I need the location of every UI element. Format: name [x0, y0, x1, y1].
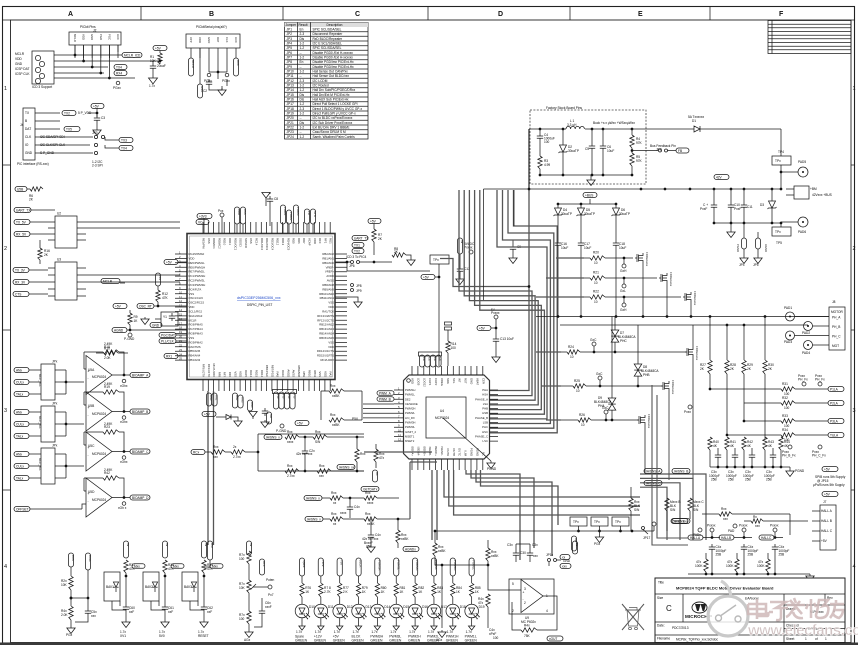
- hall connector J7: [820, 505, 836, 550]
- svg-text:2.0K: 2.0K: [104, 356, 111, 360]
- svg-text:RB6/PGC: RB6/PGC: [265, 365, 269, 377]
- svg-text:TPx: TPx: [433, 258, 439, 262]
- svg-text:1-2: 1-2: [300, 112, 305, 116]
- svg-text:JP8: JP8: [287, 60, 293, 64]
- svg-text:F: F: [779, 11, 784, 18]
- revision history table: [768, 21, 851, 54]
- svg-text:JP4: JP4: [287, 42, 293, 46]
- svg-text:R4x: R4x: [524, 624, 530, 628]
- svg-text:RE7/PWM2L: RE7/PWM2L: [189, 270, 206, 274]
- svg-text:U5B: U5B: [17, 187, 23, 191]
- test point Poten: [268, 585, 272, 589]
- svg-text:4: 4: [4, 564, 7, 570]
- svg-text:2.7xx: 2.7xx: [233, 455, 241, 459]
- U9 input wires: [488, 565, 521, 590]
- svg-text:PWM2H: PWM2H: [415, 560, 419, 570]
- grid capacitors: [715, 452, 721, 460]
- svg-text:Disable PGD/Imx PIC/Ext-Hx: Disable PGD/Imx PIC/Ext-Hx: [313, 60, 354, 64]
- svg-text:RC1/PWM2H: RC1/PWM2H: [189, 274, 206, 278]
- svg-text:42Vxxx +BUS: 42Vxxx +BUS: [812, 193, 832, 197]
- net label GETDAT: [361, 487, 379, 492]
- svg-text:OUTA: OUTA: [446, 448, 450, 456]
- svg-text:RD6: RD6: [297, 238, 301, 244]
- svg-text:VDD: VDD: [411, 378, 415, 384]
- svg-text:ILIM: ILIM: [464, 451, 468, 457]
- output net label BIOAMP_A: [130, 373, 150, 378]
- svg-text:PAD: PAD: [728, 529, 735, 533]
- svg-text:CE: CE: [439, 357, 443, 361]
- net label TX: [114, 65, 127, 70]
- diode pair in supervisor 1: [113, 582, 118, 587]
- svg-text:J4: J4: [20, 123, 24, 127]
- svg-text:PHASE_C: PHASE_C: [475, 435, 488, 439]
- svg-text:C3: C3: [101, 116, 105, 120]
- LED indicator D19 column PWM1L: [469, 558, 474, 576]
- svg-text:10uF: 10uF: [607, 149, 614, 153]
- svg-text:UART_TX: UART_TX: [354, 236, 369, 240]
- svg-text:Spare: Spare: [302, 560, 306, 568]
- driver left wires to MCU nets: [363, 404, 394, 423]
- svg-text:SOSCO: SOSCO: [244, 238, 248, 249]
- long wire down to driver VDD: [438, 277, 440, 366]
- svg-text:Y1: Y1: [163, 315, 167, 319]
- svg-text:R33: R33: [782, 414, 788, 418]
- U9 feedback resistor R46: [537, 596, 557, 630]
- svg-text:JP20: JP20: [287, 116, 294, 120]
- svg-text:INT: INT: [458, 378, 462, 383]
- svg-text:DAT: DAT: [216, 37, 220, 43]
- svg-text:RE5/PWM1L: RE5/PWM1L: [189, 261, 206, 265]
- svg-text:xxBK: xxBK: [332, 394, 340, 398]
- bottom border band: [0, 643, 858, 645]
- pullup resistor R30: [764, 317, 766, 361]
- net label CTS oval: [64, 127, 80, 132]
- svg-text:U4: U4: [440, 409, 444, 413]
- svg-text:U5A: U5A: [88, 368, 95, 372]
- svg-text:MSET2: MSET2: [405, 439, 415, 443]
- net tag PWM2H: [828, 401, 844, 406]
- svg-text:2.49K: 2.49K: [104, 468, 113, 472]
- svg-text:PWM3: PWM3: [296, 207, 300, 216]
- svg-text:VSS: VSS: [189, 336, 195, 340]
- PWM feedback resistor row2: [781, 401, 795, 405]
- ground R76b: [248, 630, 250, 632]
- svg-text:Buck +x.x µWxx +WSxxµWxx: Buck +x.x µWxx +WSxxµWxx: [593, 121, 635, 125]
- svg-text:PGND: PGND: [795, 469, 805, 473]
- svg-text:CE: CE: [422, 357, 426, 361]
- ground supervisor 1: [125, 620, 127, 622]
- top rail inside power box: [540, 128, 632, 130]
- row B ovals and resistors y519: [305, 517, 323, 522]
- svg-text:2-3: 2-3: [300, 107, 305, 111]
- output test point C: [122, 456, 126, 460]
- net tag vertical mid: [372, 470, 377, 482]
- svg-text:GREEN: GREEN: [295, 639, 308, 643]
- pad PH_C: [786, 331, 795, 340]
- svg-text:ISENB-: ISENB-: [428, 447, 432, 456]
- svg-text:PWM2: PWM2: [289, 212, 293, 221]
- svg-text:RD0/OC1: RD0/OC1: [233, 238, 237, 251]
- svg-text:47K: 47K: [162, 296, 169, 300]
- svg-text:xxx: xxx: [755, 524, 760, 528]
- svg-text:PHASE_A: PHASE_A: [475, 397, 488, 401]
- resistor R44 vertical: [486, 548, 490, 561]
- svg-text:2x: 2x: [233, 445, 237, 449]
- svg-text:RB1/AN1: RB1/AN1: [322, 256, 334, 260]
- svg-text:Disconnect Repeater: Disconnect Repeater: [313, 32, 344, 36]
- svg-text:LIN_RX: LIN_RX: [405, 416, 415, 420]
- svg-text:VREG: VREG: [440, 378, 444, 386]
- svg-text:I2C Routed: I2C Routed: [313, 84, 329, 88]
- svg-text:Size: Size: [657, 596, 663, 600]
- TP rail extension left: [435, 530, 560, 532]
- resistor R9: [129, 310, 131, 313]
- svg-text:AN4: AN4: [250, 402, 254, 408]
- svg-text:Dis: Dis: [300, 93, 305, 97]
- svg-text:LDO5: LDO5: [416, 378, 420, 386]
- connector J1 ICSP: [32, 51, 54, 84]
- hall pullup circle 1: [710, 528, 714, 532]
- net tag above supervisor 2: [162, 541, 167, 558]
- jumper JP17: [642, 527, 645, 530]
- svg-text:JP14: JP14: [287, 88, 294, 92]
- svg-text:TPx: TPx: [775, 159, 781, 163]
- net label RX chain: [191, 450, 205, 455]
- svg-text:xxBK: xxBK: [332, 423, 340, 427]
- svg-text:TX1: TX1: [354, 243, 360, 247]
- motor connector J8: [829, 307, 845, 350]
- svg-text:AGND: AGND: [764, 244, 768, 252]
- svg-text:OFF: OFF: [262, 561, 266, 567]
- svg-text:75K: 75K: [524, 634, 531, 638]
- row B lower cap and text: [368, 532, 374, 540]
- resistor R3: [538, 156, 542, 169]
- svg-text:AUX: AUX: [236, 60, 240, 66]
- svg-text:IA/SNS_xx: IA/SNS_xx: [339, 465, 355, 469]
- wires supervisor 3: [190, 601, 204, 610]
- mosfet Q5 phase B low: [661, 381, 669, 391]
- svg-text:xxxx: xxxx: [340, 511, 347, 515]
- svg-text:PHC: PHC: [482, 425, 488, 429]
- svg-text:PWM1L: PWM1L: [405, 393, 415, 397]
- svg-text:Px7: Px7: [268, 593, 274, 597]
- net label +5V right of cluster: [295, 421, 309, 426]
- svg-text:Rxx: Rxx: [331, 491, 337, 495]
- svg-text:RA0/TMS: RA0/TMS: [189, 345, 201, 349]
- net tag BULLBUS: [85, 553, 90, 570]
- svg-text:JP16: JP16: [287, 98, 294, 102]
- svg-text:1-2: 1-2: [300, 70, 305, 74]
- svg-text:MCLR_ICD: MCLR_ICD: [124, 53, 141, 57]
- svg-text:-: -: [88, 377, 89, 381]
- svg-text:GREEN: GREEN: [370, 639, 383, 643]
- svg-text:JP18: JP18: [287, 107, 294, 111]
- capacitor C18: [613, 240, 619, 248]
- svg-text:42x In Fxxx: 42x In Fxxx: [296, 452, 313, 456]
- svg-text:RC2/PWM3L: RC2/PWM3L: [189, 279, 206, 283]
- vertical resistor R51 with SPI label: [665, 498, 669, 511]
- svg-text:Mxx: Mxx: [212, 564, 218, 568]
- pullup resistor R27: [709, 317, 711, 361]
- svg-text:Rxx: Rxx: [331, 512, 337, 516]
- svg-text:1-2: 1-2: [300, 56, 305, 60]
- svg-text:HALL A: HALL A: [821, 509, 833, 513]
- PAD5 power input pad: [798, 167, 808, 177]
- svg-text:VREF-: VREF-: [326, 265, 334, 269]
- svg-text:Disable PGD0 /Ext H-xxxxxx: Disable PGD0 /Ext H-xxxxxx: [313, 51, 354, 55]
- microchip logo: [695, 604, 706, 611]
- svg-text:10K: 10K: [239, 586, 246, 590]
- capacitor C60: [123, 604, 129, 612]
- svg-text:PWM_B: PWM_B: [379, 397, 391, 401]
- net tag BUS left: [68, 553, 73, 567]
- svg-text:RF5/U2TX: RF5/U2TX: [202, 364, 206, 377]
- output net label BIOAMP_B: [130, 409, 150, 414]
- power flag inverted cap: [252, 417, 254, 419]
- op-amp U5C: [86, 432, 112, 471]
- resistor R75 trimmer: [247, 580, 251, 593]
- svg-text:ILIMIT_2: ILIMIT_2: [405, 430, 416, 434]
- pull-up resistor R1 with +5V: [153, 46, 167, 51]
- test point row3: [622, 303, 626, 307]
- ground triangle right of MCU: [335, 297, 358, 300]
- resistor R6: [27, 188, 30, 190]
- svg-text:A: A: [68, 11, 73, 18]
- wire from MCU right pins to jumper area: [335, 261, 347, 263]
- svg-text:VDD: VDD: [189, 256, 195, 260]
- resistor R14 above driver: [446, 341, 450, 353]
- svg-text:C11: C11: [747, 205, 753, 209]
- svg-text:xOhx: xOhx: [120, 384, 128, 388]
- svg-text:BIOAMP_D: BIOAMP_D: [132, 496, 149, 500]
- ground supervisor 3: [203, 620, 205, 622]
- svg-text:RB8/AN8: RB8/AN8: [322, 283, 334, 287]
- svg-text:GxH: GxH: [620, 308, 627, 312]
- svg-text:ISENA+: ISENA+: [411, 446, 415, 456]
- svg-text:RF8: RF8: [217, 372, 221, 378]
- svg-text:RST: RST: [464, 378, 468, 384]
- svg-text:xOhx: xOhx: [120, 460, 128, 464]
- svg-text:Dis: Dis: [300, 37, 305, 41]
- svg-text:BAV3: BAV3: [184, 585, 192, 589]
- svg-text:SCL: SCL: [452, 378, 456, 384]
- svg-text:PHB: PHB: [643, 373, 650, 377]
- svg-text:PAD3: PAD3: [784, 340, 792, 344]
- svg-text:+5V: +5V: [340, 560, 344, 565]
- svg-text:MCP8024: MCP8024: [435, 416, 449, 420]
- svg-text:xxBK: xxBK: [491, 554, 499, 558]
- watermark logo circle: [708, 581, 748, 636]
- svg-text:JP10: JP10: [287, 70, 294, 74]
- wires supervisor 1: [112, 601, 126, 610]
- svg-text:JP15: JP15: [287, 93, 294, 97]
- pad PH_B: [804, 322, 813, 331]
- hall filter resistor RH1: [719, 512, 732, 516]
- svg-text:VSS: VSS: [233, 371, 237, 377]
- svg-text:P-GND: P-GND: [276, 429, 287, 433]
- svg-text:TPx: TPx: [775, 230, 781, 234]
- svg-text:I2C Sub Driver Pxxx/Exxxxx: I2C Sub Driver Pxxx/Exxxxx: [313, 121, 353, 125]
- svg-text:xxF: xxF: [168, 610, 173, 614]
- svg-text:25B: 25B: [748, 553, 754, 557]
- output test point A: [122, 379, 126, 383]
- svg-text:CE: CE: [428, 357, 432, 361]
- svg-text:RG6/PMA5: RG6/PMA5: [189, 323, 204, 327]
- PWM feedback resistor row1: [781, 387, 795, 391]
- svg-text:MCP_BLL: MCP_BLL: [38, 458, 42, 471]
- svg-text:R31: R31: [782, 382, 788, 386]
- svg-text:RD2/OC3: RD2/OC3: [265, 238, 269, 251]
- series resistor R24 phase A: [567, 350, 580, 354]
- PWM feedback resistor row4: [781, 433, 795, 437]
- svg-text:Hall Drv/Ext M PIC/Ext-Hx: Hall Drv/Ext M PIC/Ext-Hx: [313, 93, 350, 97]
- net label input 3-3: [14, 476, 29, 481]
- svg-text:BIOAMP_C: BIOAMP_C: [132, 450, 149, 454]
- svg-text:µPx/B runs 5th Supply: µPx/B runs 5th Supply: [813, 483, 845, 487]
- loop resistor R1a: [285, 435, 299, 439]
- svg-text:10uF: 10uF: [561, 246, 568, 250]
- zener D2: [562, 129, 564, 145]
- svg-text:xxF: xxF: [129, 610, 134, 614]
- jumper JP5 ferrite: [756, 238, 761, 249]
- svg-text:JP11: JP11: [287, 74, 294, 78]
- MCU U1 dsPIC33 100-pin TQFP body: [187, 234, 335, 380]
- svg-text:Rxx: Rxx: [213, 445, 219, 449]
- svg-text:SD: SD: [269, 414, 273, 418]
- svg-text:TX2: TX2: [354, 249, 360, 253]
- svg-text:RX1: RX1: [166, 354, 172, 358]
- feedback resistor loop R37 lower: [329, 418, 344, 422]
- watermark chinese glyph you: [830, 600, 844, 618]
- loop cap C2a: [302, 448, 308, 456]
- net label input 3-1: [14, 452, 29, 457]
- jumper pads PH_x_Fx: [802, 382, 806, 386]
- wire bus from J1 to PICkit header: [54, 55, 160, 78]
- net tag PWM4H: [828, 433, 844, 438]
- mosfet Q6 phase C low: [637, 415, 645, 425]
- svg-text:U2: U2: [57, 212, 61, 216]
- svg-text:RG9/PMA2: RG9/PMA2: [189, 340, 204, 344]
- svg-text:MCP8x_TQFPxx_xxx.Schdoc: MCP8x_TQFPxx_xxx.Schdoc: [676, 638, 718, 642]
- svg-text:Hall Sense Out CAN/Pxx: Hall Sense Out CAN/Pxx: [313, 70, 349, 74]
- svg-text:MCP6024: MCP6024: [92, 498, 106, 502]
- svg-text:Mxx: Mxx: [134, 564, 140, 568]
- svg-text:RD11: RD11: [228, 238, 232, 245]
- svg-text:RC4/FLTA: RC4/FLTA: [189, 287, 202, 291]
- svg-text:GxC: GxC: [596, 372, 603, 376]
- svg-text:VPP: VPP: [189, 37, 193, 43]
- ground of C3: [96, 128, 98, 130]
- svg-text:Direct Pull/LGPI y UVCC GP-x: Direct Pull/LGPI y UVCC GP-x: [313, 112, 357, 116]
- net tag on pin 1: [188, 58, 193, 76]
- net label TX2: [62, 111, 76, 116]
- svg-text:DAT: DAT: [25, 127, 31, 131]
- grid resistor R41: [725, 437, 729, 450]
- svg-text:100: 100: [784, 406, 790, 410]
- zener D3: [771, 189, 773, 201]
- svg-text:CLK: CLK: [25, 135, 32, 139]
- net label PGD: [116, 81, 120, 85]
- svg-text:RF13/U2RTS: RF13/U2RTS: [317, 314, 334, 318]
- mosfet Q1: [635, 253, 643, 263]
- crystal Y1 with load caps: [161, 312, 178, 326]
- svg-text:RB10: RB10: [308, 370, 312, 377]
- svg-text:5V: 5V: [165, 543, 169, 547]
- net label OFFSET input: [14, 507, 30, 512]
- driver bottom bus to sense network: [444, 470, 640, 497]
- bottom rail inside power box: [540, 174, 632, 176]
- ground of pin5: [218, 79, 227, 90]
- svg-text:JPx: JPx: [52, 360, 58, 364]
- vertical resistor R55: [355, 449, 359, 462]
- svg-text:PWM3H: PWM3H: [377, 560, 381, 570]
- svg-text:En: En: [300, 60, 304, 64]
- svg-text:RB7/PGD: RB7/PGD: [270, 365, 274, 377]
- svg-text:RF4/U2RX: RF4/U2RX: [320, 358, 334, 362]
- svg-text:MCLR: MCLR: [189, 318, 197, 322]
- output net label BIOAMP_C: [130, 449, 150, 454]
- ground R62: [70, 626, 72, 628]
- svg-text:RB8/AN8: RB8/AN8: [297, 365, 301, 377]
- svg-text:En: En: [300, 28, 304, 32]
- svg-text:RG8/PMA3: RG8/PMA3: [189, 332, 204, 336]
- net tag PWM1H: [828, 387, 844, 392]
- svg-text:GREEN: GREEN: [352, 639, 365, 643]
- svg-text:1.7x: 1.7x: [409, 630, 415, 634]
- supervisor U8 box: [182, 572, 198, 601]
- current sense input connector K3: [41, 448, 55, 484]
- LED indicator D16 column PWM2H: [413, 558, 418, 576]
- svg-text:R22: R22: [593, 290, 599, 294]
- net tags above MCU right: [304, 209, 309, 224]
- svg-text:AGx: AGx: [436, 638, 443, 642]
- svg-text:TX_5V: TX_5V: [16, 220, 27, 224]
- net label oval on rail: [714, 175, 729, 180]
- row A capacitor: [347, 504, 353, 512]
- svg-text:FDDxxxxxx: FDDxxxxxx: [645, 252, 649, 267]
- net labels PGC PGD pair: [159, 333, 176, 338]
- svg-text:Bus Feedback Pin: Bus Feedback Pin: [650, 144, 676, 148]
- svg-text:OSC_RT: OSC_RT: [139, 304, 152, 308]
- svg-text:FDDxxxxxx: FDDxxxxxx: [669, 272, 673, 287]
- net label USB: [15, 187, 27, 192]
- svg-text:Description: Description: [327, 23, 343, 27]
- main input rail: [484, 188, 782, 190]
- svg-text:VDD: VDD: [313, 238, 317, 244]
- svg-text:RD7: RD7: [302, 238, 306, 244]
- svg-text:TULA: TULA: [830, 433, 839, 437]
- loop output oval: [337, 465, 355, 470]
- net label GND oval: [150, 323, 162, 328]
- svg-text:VCAP: VCAP: [308, 238, 312, 246]
- svg-text:CTS: CTS: [15, 292, 21, 296]
- svg-text:RF2/U1RX: RF2/U1RX: [212, 363, 216, 377]
- svg-text:RxD BLDC/Repeater: RxD BLDC/Repeater: [313, 37, 344, 41]
- net label +5V to MCU pin: [164, 260, 178, 265]
- svg-text:FDDxxxxxx: FDDxxxxxx: [695, 346, 699, 361]
- svg-text:--: --: [300, 116, 302, 120]
- capacitor C16: [555, 240, 561, 248]
- svg-text:PHA: PHA: [598, 404, 605, 408]
- svg-text:PWM2H: PWM2H: [405, 407, 415, 411]
- svg-text:JP1: JP1: [287, 28, 293, 32]
- op-amp U5A: [86, 356, 112, 395]
- jumper JP3: [94, 135, 97, 138]
- svg-text:25B: 25B: [745, 478, 751, 482]
- zener D5: [580, 204, 582, 208]
- svg-text:MCP8024 TQFP BLDC MotorDriver: MCP8024 TQFP BLDC MotorDriver Evaluator …: [676, 586, 774, 591]
- svg-text:CULx: CULx: [16, 464, 24, 468]
